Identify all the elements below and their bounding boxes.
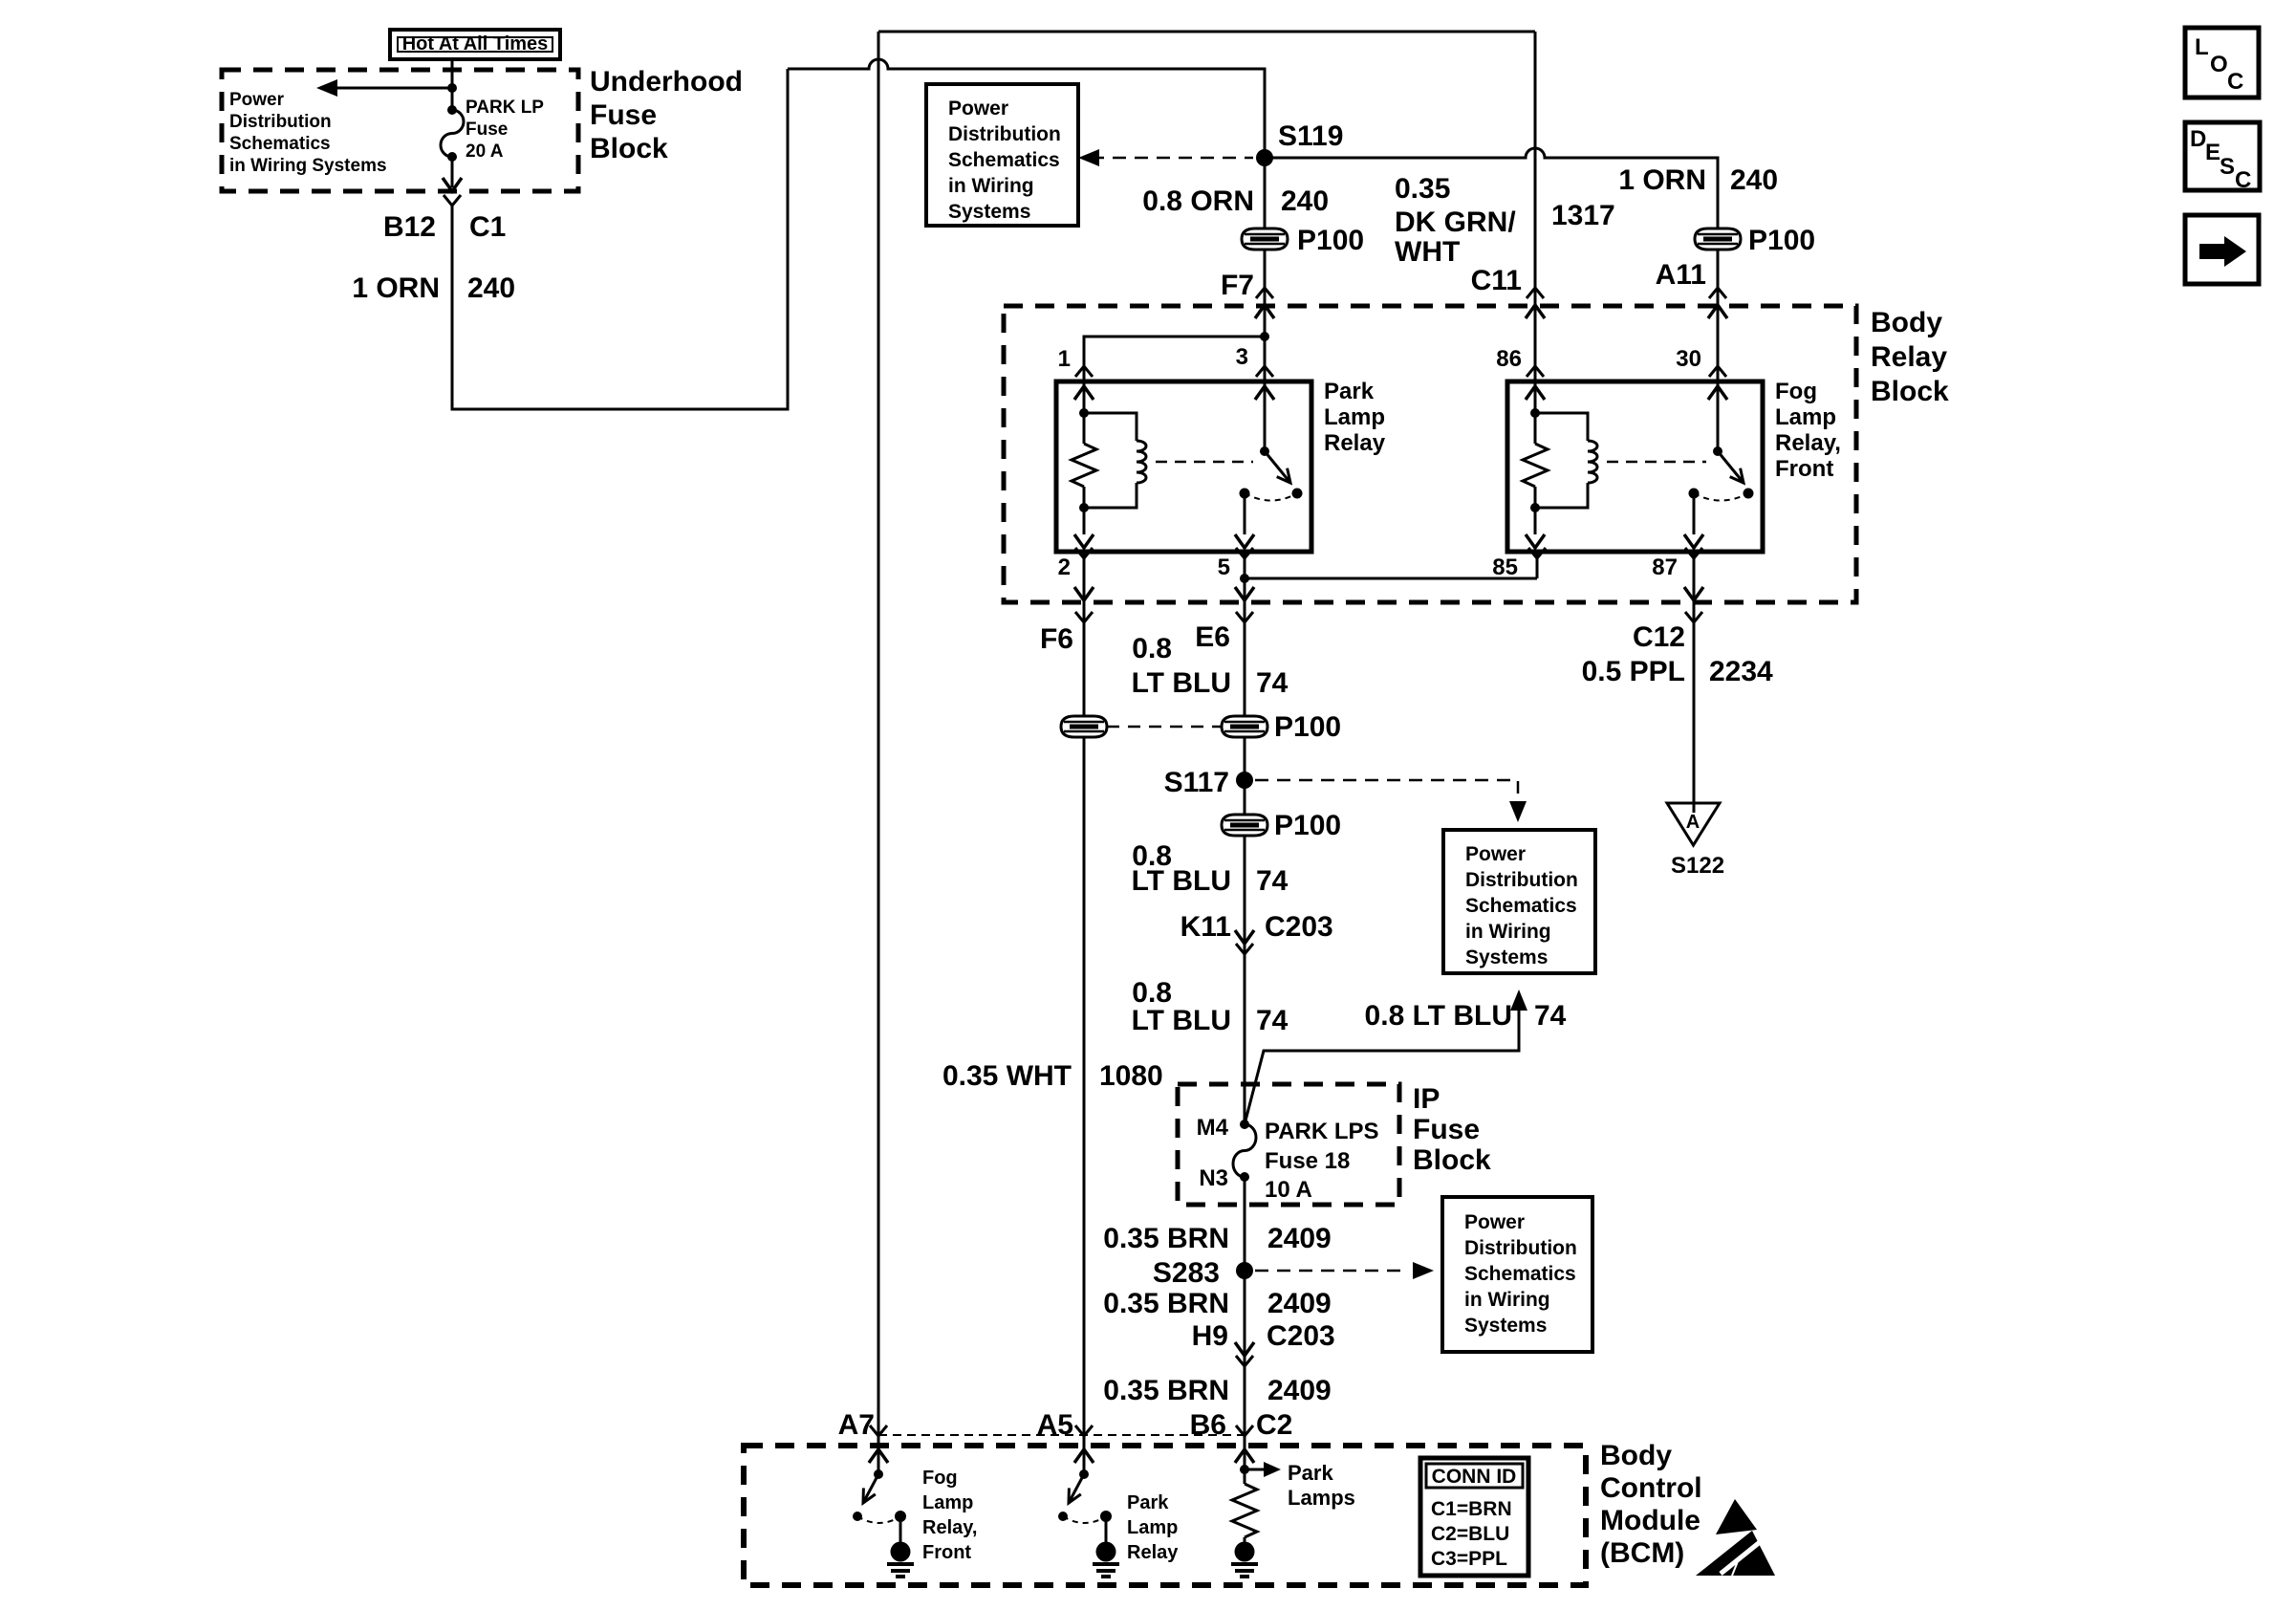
svg-text:0.35: 0.35 xyxy=(1395,173,1450,205)
svg-text:Relay: Relay xyxy=(1324,430,1386,456)
wire: Park Lamp Relay switch output xyxy=(1244,493,1246,534)
svg-text:2409: 2409 xyxy=(1267,1288,1332,1319)
svg-text:240: 240 xyxy=(1281,185,1329,217)
resistor: park lamps sense xyxy=(1232,1484,1257,1537)
node: Park Lamp Relay switch NO contact xyxy=(1292,489,1303,499)
node: fuse N3 terminal xyxy=(1240,1172,1249,1182)
arrow: Park Lamp Relay coil-left entry xyxy=(1074,386,1094,400)
arrow: pin 87 exits relay block xyxy=(1684,587,1703,600)
wire: park lamps branch xyxy=(1245,1469,1266,1471)
svg-text:Control: Control xyxy=(1600,1472,1702,1504)
arrow: to park lamps xyxy=(1264,1462,1281,1477)
wire: A5 into BCM xyxy=(1083,1446,1086,1474)
svg-text:2409: 2409 xyxy=(1267,1375,1332,1406)
svg-text:C2: C2 xyxy=(1256,1409,1292,1441)
Body Relay Block dashed box xyxy=(1004,306,1856,602)
label: PARK LP Fuse 20 A xyxy=(466,98,544,162)
svg-text:L: L xyxy=(2195,34,2209,60)
svg-text:C1: C1 xyxy=(469,211,506,243)
svg-text:Lamp: Lamp xyxy=(1127,1517,1178,1538)
wire: 0.5 PPL 2234 xyxy=(1693,602,1696,813)
svg-text:Systems: Systems xyxy=(948,201,1030,223)
wire: Fog Lamp Relay Front resistor to bottom node xyxy=(1534,487,1537,508)
svg-text:1 ORN: 1 ORN xyxy=(1618,164,1706,196)
svg-text:Power: Power xyxy=(229,90,285,110)
svg-text:C203: C203 xyxy=(1267,1320,1335,1352)
wire: Park Lamp Relay coil pin left xyxy=(1083,381,1086,413)
connector C203 chevron xyxy=(1236,944,1253,954)
svg-text:in Wiring Systems: in Wiring Systems xyxy=(229,156,387,176)
wire: A7 into BCM xyxy=(877,1446,880,1474)
node S283 xyxy=(1236,1262,1253,1279)
svg-text:O: O xyxy=(2210,52,2228,77)
svg-text:C: C xyxy=(2227,69,2243,95)
svg-text:B12: B12 xyxy=(383,211,436,243)
wire: dashed to power distribution xyxy=(1091,157,1253,160)
node: Fog Lamp Relay Front switch NO contact xyxy=(1744,489,1754,499)
connector F7 chevron xyxy=(1256,288,1273,298)
connector pin 1 chevron xyxy=(1075,366,1093,377)
svg-text:0.35 WHT: 0.35 WHT xyxy=(942,1060,1072,1092)
svg-text:Front: Front xyxy=(922,1542,971,1563)
wire: E6 through border xyxy=(1244,578,1246,602)
arrow: Fog Lamp Relay Front coil-left exit xyxy=(1526,534,1545,548)
svg-text:Block: Block xyxy=(1871,376,1949,407)
node: park relay feed junction xyxy=(1260,332,1269,341)
svg-text:Distribution: Distribution xyxy=(1465,869,1578,891)
svg-text:Lamp: Lamp xyxy=(1324,404,1385,430)
svg-text:CONN ID: CONN ID xyxy=(1432,1466,1517,1488)
svg-text:20 A: 20 A xyxy=(466,141,504,162)
svg-text:74: 74 xyxy=(1256,1005,1289,1036)
svg-text:C1=BRN: C1=BRN xyxy=(1431,1498,1512,1520)
svg-text:Body: Body xyxy=(1600,1440,1672,1471)
svg-text:S: S xyxy=(2220,154,2235,180)
arrow: Fog Lamp Relay Front common entry xyxy=(1708,386,1727,400)
svg-text:3: 3 xyxy=(1236,344,1248,370)
svg-text:Park: Park xyxy=(1324,379,1375,404)
svg-text:0.8: 0.8 xyxy=(1132,633,1172,664)
svg-text:Schematics: Schematics xyxy=(229,134,331,154)
svg-text:Lamp: Lamp xyxy=(922,1492,973,1513)
wire: Park Lamp Relay coil bottom to pin xyxy=(1083,508,1086,534)
svg-text:Fuse 18: Fuse 18 xyxy=(1265,1148,1350,1174)
node: fog driver pivot xyxy=(874,1469,883,1479)
connector pin 2 chevron xyxy=(1075,548,1093,558)
svg-text:Relay,: Relay, xyxy=(922,1517,977,1538)
svg-text:10 A: 10 A xyxy=(1265,1177,1312,1203)
label: Fog Lamp Relay, Front xyxy=(1775,379,1841,482)
text: Power Distribution Schematics in Wiring Systems (underhood) xyxy=(229,90,387,176)
svg-text:Power: Power xyxy=(1465,843,1526,865)
svg-text:C11: C11 xyxy=(1471,265,1522,296)
svg-text:N3: N3 xyxy=(1199,1165,1228,1191)
connector A7 chevron xyxy=(870,1425,887,1436)
wire: 0.8 LT BLU E6 down xyxy=(1244,602,1246,1124)
wire: Fog Lamp Relay Front switch travel arc xyxy=(1694,493,1748,501)
svg-text:F6: F6 xyxy=(1040,623,1073,655)
arrow: Fog Lamp Relay Front switch output exit xyxy=(1684,534,1703,548)
inductor: Park Lamp Relay relay coil xyxy=(1137,441,1146,483)
CONN ID table xyxy=(1420,1458,1528,1576)
svg-text:S117: S117 xyxy=(1164,767,1229,798)
wire: 1 ORN 240 to S119 (hop over fog feed) xyxy=(788,59,1265,158)
wire: P100 dashed pair link xyxy=(1107,726,1222,729)
svg-text:Schematics: Schematics xyxy=(1465,895,1577,917)
svg-text:K11: K11 xyxy=(1180,911,1231,943)
arrow: to power distribution schematics xyxy=(316,79,337,97)
wire: pin 5 drop xyxy=(1244,552,1246,578)
box: Power Distribution Schematics in Wiring Systems (middle) xyxy=(1443,830,1595,973)
node: Park Lamp Relay coil bottom xyxy=(1079,503,1089,512)
svg-text:LT BLU: LT BLU xyxy=(1132,865,1231,897)
ground: fog lamp relay driver xyxy=(887,1542,914,1577)
arrow: F7 into body relay block xyxy=(1255,305,1274,318)
svg-text:74: 74 xyxy=(1256,667,1289,699)
node: pin5/85 junction xyxy=(1240,574,1249,583)
wire: Park Lamp Relay switch travel arc xyxy=(1245,493,1297,501)
text: power distribution schematics (middle box) xyxy=(1465,843,1578,968)
ground: park lamp relay driver xyxy=(1093,1542,1119,1577)
wire: Fog Lamp Relay Front coil-to-switch dashed link xyxy=(1607,461,1706,464)
svg-text:Body: Body xyxy=(1871,307,1942,338)
connector P100 (F6) xyxy=(1061,716,1107,737)
label: PARK LPS Fuse 18 10 A xyxy=(1265,1119,1379,1203)
connector B6 chevron xyxy=(1236,1425,1253,1436)
connector pin 30 chevron xyxy=(1709,366,1726,377)
svg-text:Power: Power xyxy=(948,98,1008,120)
svg-text:85: 85 xyxy=(1492,555,1518,580)
svg-text:PARK LP: PARK LP xyxy=(466,98,544,118)
svg-text:S283: S283 xyxy=(1153,1257,1220,1289)
arrow: Fog Lamp Relay Front coil-left entry xyxy=(1526,386,1545,400)
resistor: Fog Lamp Relay Front coil suppression xyxy=(1523,444,1548,487)
ESD sensitive device symbol xyxy=(1696,1499,1775,1576)
svg-text:Module: Module xyxy=(1600,1505,1700,1536)
node: park lamps junction xyxy=(1240,1465,1249,1474)
svg-text:A11: A11 xyxy=(1656,259,1706,291)
svg-text:Lamps: Lamps xyxy=(1288,1486,1355,1510)
label: Body Control Module (BCM) xyxy=(1600,1440,1702,1569)
text: power distribution schematics (lower box) xyxy=(1464,1211,1577,1337)
label: Body Relay Block xyxy=(1871,307,1949,407)
svg-text:P100: P100 xyxy=(1748,225,1815,256)
wire: fog driver travel arc xyxy=(857,1516,900,1523)
svg-text:C3=PPL: C3=PPL xyxy=(1431,1548,1507,1570)
svg-text:S122: S122 xyxy=(1671,853,1724,879)
svg-text:0.35 BRN: 0.35 BRN xyxy=(1103,1375,1229,1406)
wire: 0.8 LT BLU 74 branch xyxy=(1245,1004,1519,1124)
node: fuse top terminal xyxy=(447,105,457,115)
wire: Park Lamp Relay coil bottom link xyxy=(1084,483,1137,508)
node: fog driver contact B xyxy=(895,1511,906,1522)
svg-text:Front: Front xyxy=(1775,456,1833,482)
arrow: E6 exits relay block xyxy=(1235,587,1254,600)
label: Park Lamps xyxy=(1288,1461,1355,1510)
node: Fog Lamp Relay Front coil top xyxy=(1530,408,1540,418)
arrow: H9 C203 connector xyxy=(1235,1342,1254,1356)
svg-text:P100: P100 xyxy=(1274,711,1341,743)
svg-text:(BCM): (BCM) xyxy=(1600,1537,1684,1569)
wire: Park Lamp Relay coil top link xyxy=(1084,413,1137,441)
svg-text:in Wiring: in Wiring xyxy=(1464,1289,1550,1311)
svg-text:P100: P100 xyxy=(1297,225,1364,256)
svg-text:Relay: Relay xyxy=(1871,341,1947,373)
box: Power Distribution Schematics in Wiring Systems (lower) xyxy=(1442,1197,1592,1352)
connector A11 chevron xyxy=(1709,288,1726,298)
arrow: A7 entry xyxy=(869,1449,888,1463)
wire: branch to park relay pin 1 xyxy=(1084,337,1265,381)
svg-text:M4: M4 xyxy=(1197,1115,1229,1141)
arrow: S283 to power distribution schematics xyxy=(1413,1262,1434,1279)
wire: top bus xyxy=(878,31,1535,33)
wire: pin 5 to pin 85 xyxy=(1245,577,1537,580)
wire: 0.35 BRN to BCM B6 xyxy=(1244,1177,1246,1446)
svg-text:A: A xyxy=(1686,812,1700,833)
svg-text:0.35 BRN: 0.35 BRN xyxy=(1103,1288,1229,1319)
connector P100 (S117) xyxy=(1222,815,1267,836)
svg-text:Lamp: Lamp xyxy=(1775,404,1836,430)
node: Fog Lamp Relay Front switch output contact xyxy=(1689,489,1700,499)
node: Park Lamp Relay switch pivot xyxy=(1260,446,1269,456)
wire: S119 to A11 branch (hop over DK GRN wire) xyxy=(1265,148,1718,381)
connector pin 3 chevron xyxy=(1256,366,1273,377)
wire: park driver to ground xyxy=(1105,1516,1108,1542)
connector P100 (A11) xyxy=(1695,228,1741,250)
svg-text:Fuse: Fuse xyxy=(466,120,508,140)
arrow: Park Lamp Relay switch output exit xyxy=(1235,534,1254,548)
svg-text:in Wiring: in Wiring xyxy=(948,175,1034,197)
wire: 0.35 WHT F6 to BCM A5 xyxy=(1083,602,1086,1446)
wire: Park Lamp Relay coil-to-switch dashed link xyxy=(1156,461,1253,464)
svg-text:1 ORN: 1 ORN xyxy=(352,272,440,304)
svg-text:C2=BLU: C2=BLU xyxy=(1431,1523,1509,1545)
svg-text:S119: S119 xyxy=(1278,120,1343,152)
label: wire 0.35 DK GRN/WHT xyxy=(1395,173,1516,268)
connector C11 chevron xyxy=(1527,288,1544,298)
wire: Fog Lamp Relay Front switch common xyxy=(1717,381,1720,451)
fuse PARK LPS Fuse 18 10A symbol xyxy=(1233,1124,1256,1177)
svg-text:Fog: Fog xyxy=(922,1468,958,1489)
resistor: Park Lamp Relay coil suppression xyxy=(1072,444,1096,487)
arrow: B6 entry xyxy=(1235,1449,1254,1463)
wire: Fog Lamp Relay Front coil top link xyxy=(1535,413,1588,441)
svg-text:Systems: Systems xyxy=(1465,946,1548,968)
svg-text:2409: 2409 xyxy=(1267,1223,1332,1254)
wire: Park Lamp Relay switch common xyxy=(1264,381,1267,451)
connector P100 (F7) xyxy=(1242,228,1288,250)
wire: Fog Lamp Relay Front to resistor xyxy=(1534,413,1537,444)
svg-text:P100: P100 xyxy=(1274,810,1341,841)
svg-text:Schematics: Schematics xyxy=(1464,1263,1576,1285)
node S117 xyxy=(1236,772,1253,789)
text: power distribution schematics in wiring systems (top box) xyxy=(948,98,1061,223)
wire: Fog Lamp Relay Front coil pin left xyxy=(1534,381,1537,413)
connector C203 chevron (H9) xyxy=(1236,1356,1253,1366)
arrow: C11 into body relay block xyxy=(1526,305,1545,318)
node: park driver contact B xyxy=(1100,1511,1112,1522)
svg-text:Block: Block xyxy=(590,133,668,164)
switch arm: park lamp relay driver xyxy=(1069,1474,1084,1503)
svg-text:74: 74 xyxy=(1534,1000,1567,1032)
wire: fog driver to ground xyxy=(899,1516,902,1542)
box: Power Distribution Schematics in Wiring Systems (top) xyxy=(926,84,1078,226)
svg-text:1: 1 xyxy=(1058,346,1071,372)
wire: Fog Lamp Relay Front switch output xyxy=(1693,493,1696,534)
node: hot feed junction xyxy=(447,83,457,93)
connector F6 chevron xyxy=(1075,612,1093,622)
svg-text:5: 5 xyxy=(1218,555,1230,580)
svg-text:E: E xyxy=(2205,140,2220,165)
node: fog driver contact A xyxy=(853,1512,862,1521)
wire: hot feed into fuse xyxy=(451,59,454,110)
arrow: A5 entry xyxy=(1074,1449,1094,1463)
IP Fuse Block dashed box xyxy=(1178,1084,1399,1205)
switch arm: Fog Lamp Relay Front xyxy=(1718,451,1744,483)
wire: fuse to C1 xyxy=(451,157,454,187)
svg-text:Distribution: Distribution xyxy=(1464,1237,1577,1259)
ground: park lamps sense xyxy=(1231,1542,1258,1577)
switch arm: Park Lamp Relay xyxy=(1265,451,1290,483)
svg-text:A5: A5 xyxy=(1037,1409,1073,1441)
svg-text:Underhood: Underhood xyxy=(590,66,743,98)
wire: 0.35 WHT/fog feed down to BCM A7 xyxy=(877,32,880,1446)
arrow: Park Lamp Relay coil-left exit xyxy=(1074,534,1094,548)
node: fuse bottom terminal xyxy=(447,152,457,162)
node S119 xyxy=(1256,149,1273,166)
svg-text:LT BLU: LT BLU xyxy=(1132,667,1231,699)
Body Control Module dashed box xyxy=(744,1446,1586,1585)
relay box: Park Lamp Relay xyxy=(1056,381,1311,552)
svg-text:PARK LPS: PARK LPS xyxy=(1265,1119,1379,1144)
arrow: K11 C203 connector xyxy=(1235,930,1254,944)
svg-text:in Wiring: in Wiring xyxy=(1465,921,1551,943)
svg-text:Fuse: Fuse xyxy=(590,99,657,131)
connector pin 5 chevron xyxy=(1236,548,1253,558)
svg-text:2234: 2234 xyxy=(1709,656,1773,687)
svg-text:LT BLU: LT BLU xyxy=(1132,1005,1231,1036)
wire: pin 2 to border xyxy=(1083,552,1086,602)
label: Underhood Fuse Block xyxy=(590,66,743,164)
svg-text:Power: Power xyxy=(1464,1211,1525,1233)
svg-text:Distribution: Distribution xyxy=(229,112,332,132)
svg-text:30: 30 xyxy=(1676,346,1701,372)
svg-text:Block: Block xyxy=(1413,1144,1491,1176)
arrow: exit underhood fuse block xyxy=(443,178,462,191)
label: Fog Lamp Relay, Front (BCM) xyxy=(922,1468,977,1563)
fuse PARK LP 20A symbol xyxy=(441,110,464,157)
svg-text:0.35 BRN: 0.35 BRN xyxy=(1103,1223,1229,1254)
svg-text:Fog: Fog xyxy=(1775,379,1817,404)
wire: S283 dashed to power distribution xyxy=(1255,1270,1403,1273)
connector P100 (E6) xyxy=(1222,716,1267,737)
wire: S117 dashed to power distribution xyxy=(1255,780,1518,794)
connector pin 86 chevron xyxy=(1527,366,1544,377)
wire: Park Lamp Relay resistor to bottom node xyxy=(1083,487,1086,508)
wire: pin 85 drop xyxy=(1536,552,1539,578)
connector C1 chevron xyxy=(444,195,461,206)
svg-text:IP: IP xyxy=(1413,1083,1440,1115)
wire: 1 ORN 240 routing xyxy=(452,69,788,409)
wire: park driver travel arc xyxy=(1063,1516,1106,1523)
node: fuse M4 terminal xyxy=(1240,1120,1249,1129)
connector C12 chevron xyxy=(1685,612,1702,622)
svg-text:WHT: WHT xyxy=(1395,236,1460,268)
svg-text:Park: Park xyxy=(1288,1461,1333,1485)
forward arrow box xyxy=(2185,215,2259,284)
svg-text:74: 74 xyxy=(1256,865,1289,897)
arrow: Park Lamp Relay common entry xyxy=(1255,386,1274,400)
svg-text:C12: C12 xyxy=(1633,621,1685,653)
svg-text:1317: 1317 xyxy=(1551,200,1615,231)
node: Park Lamp Relay switch output contact xyxy=(1240,489,1250,499)
svg-text:DK GRN/: DK GRN/ xyxy=(1395,207,1516,238)
wire: 0.8 ORN S119 down to park relay pin 3 xyxy=(1264,158,1267,381)
arrow: S117 to power distribution schematics xyxy=(1509,801,1527,822)
svg-text:C: C xyxy=(2235,167,2251,193)
arrow: S119 to power distribution schematics xyxy=(1078,149,1099,166)
Underhood Fuse Block dashed box xyxy=(222,70,578,191)
label: IP Fuse Block xyxy=(1413,1083,1491,1176)
svg-text:H9: H9 xyxy=(1192,1320,1228,1352)
svg-text:Distribution: Distribution xyxy=(948,123,1061,145)
switch arm: fog lamp relay driver xyxy=(863,1474,878,1503)
wire: Fog Lamp Relay Front coil bottom to pin xyxy=(1534,508,1537,534)
svg-text:E6: E6 xyxy=(1195,621,1230,653)
svg-text:2: 2 xyxy=(1058,555,1071,580)
svg-text:F7: F7 xyxy=(1221,270,1254,301)
connector pin 87 chevron xyxy=(1685,548,1702,558)
svg-text:86: 86 xyxy=(1496,346,1522,372)
svg-text:A7: A7 xyxy=(838,1409,875,1441)
ground reference triangle A (S122) xyxy=(1667,803,1720,845)
DESC reference box xyxy=(2185,122,2260,193)
svg-text:Hot At All Times: Hot At All Times xyxy=(402,33,549,54)
node: Park Lamp Relay coil top xyxy=(1079,408,1089,418)
wire: Fog Lamp Relay Front coil bottom link xyxy=(1535,483,1588,508)
wire: BCM connector dashed line xyxy=(878,1434,1245,1436)
LOC reference box xyxy=(2185,28,2259,98)
node: Fog Lamp Relay Front coil bottom xyxy=(1530,503,1540,512)
wire: pin 87 to border xyxy=(1693,552,1696,602)
node: park driver contact A xyxy=(1058,1512,1068,1521)
svg-text:Systems: Systems xyxy=(1464,1315,1547,1337)
arrow: pin 2 exits relay block xyxy=(1074,587,1094,600)
svg-text:0.5 PPL: 0.5 PPL xyxy=(1582,656,1685,687)
svg-text:Fuse: Fuse xyxy=(1413,1114,1480,1145)
connector pin 85 chevron xyxy=(1528,548,1546,558)
svg-text:Relay,: Relay, xyxy=(1775,430,1841,456)
svg-text:Park: Park xyxy=(1127,1492,1169,1513)
node: park driver pivot xyxy=(1079,1469,1089,1479)
svg-text:D: D xyxy=(2190,126,2206,152)
wire: 0.35 DK GRN/WHT down to fog relay 86 xyxy=(1534,32,1537,381)
node: Fog Lamp Relay Front switch pivot xyxy=(1713,446,1722,456)
relay box: Fog Lamp Relay Front xyxy=(1507,381,1763,552)
label box "Hot At All Times" xyxy=(390,30,560,59)
arrow: branch to power distribution schematics xyxy=(1510,990,1527,1011)
wire: resistor to ground xyxy=(1244,1537,1246,1542)
svg-text:87: 87 xyxy=(1652,555,1678,580)
svg-text:240: 240 xyxy=(467,272,515,304)
svg-text:0.8 LT BLU: 0.8 LT BLU xyxy=(1365,1000,1512,1032)
label: Park Lamp Relay (BCM) xyxy=(1127,1492,1179,1563)
svg-text:240: 240 xyxy=(1730,164,1778,196)
svg-text:1080: 1080 xyxy=(1099,1060,1163,1092)
svg-text:B6: B6 xyxy=(1190,1409,1226,1441)
wire: B6 into BCM xyxy=(1244,1446,1246,1484)
arrow: A11 into body relay block xyxy=(1708,305,1727,318)
